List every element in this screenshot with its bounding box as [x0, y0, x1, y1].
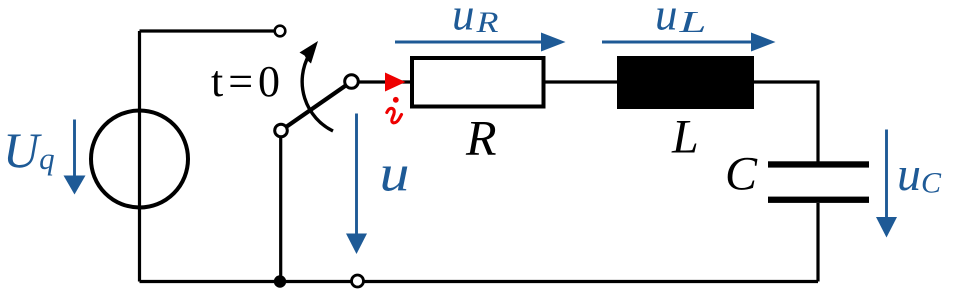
- svg-text:R: R: [465, 110, 497, 166]
- svg-text:u: u: [380, 146, 410, 203]
- svg-text:uL: uL: [655, 0, 707, 40]
- svg-text:L: L: [671, 111, 699, 164]
- svg-text:t=0: t=0: [211, 57, 285, 106]
- svg-text:C: C: [725, 148, 758, 201]
